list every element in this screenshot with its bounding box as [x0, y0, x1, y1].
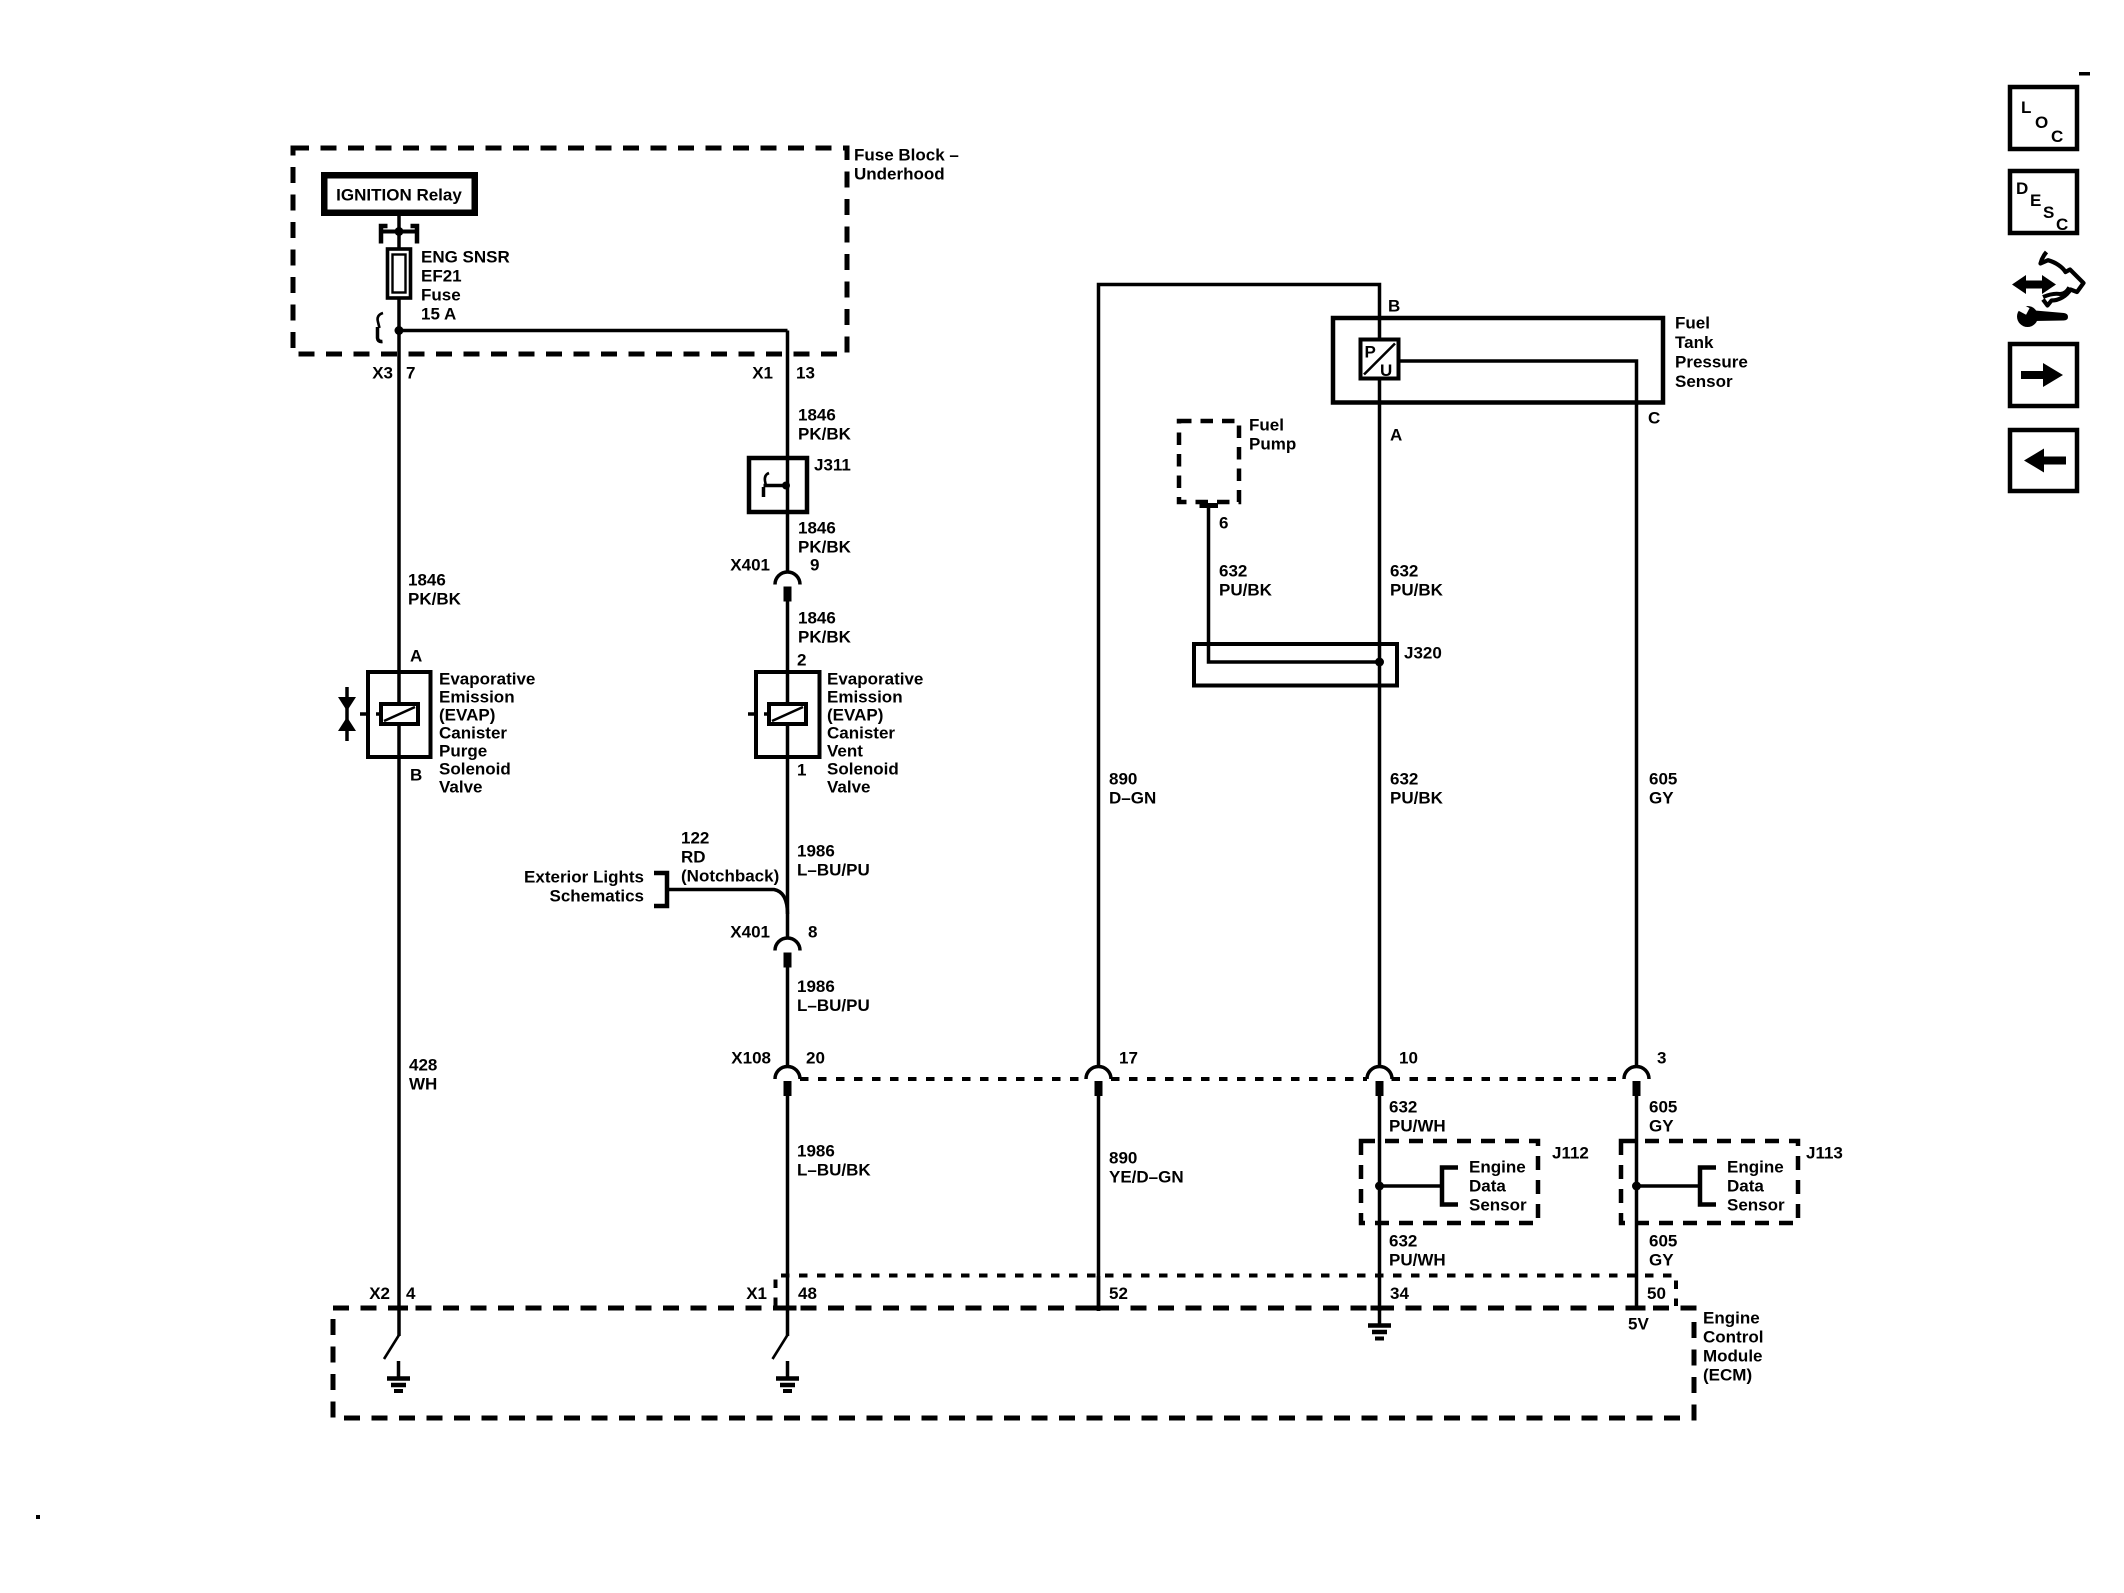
svg-text:34: 34: [1390, 1284, 1409, 1303]
svg-text:605: 605: [1649, 1098, 1677, 1117]
svg-text:Engine: Engine: [1727, 1158, 1784, 1177]
fuse ENG SNSR EF21 15 A: [388, 249, 411, 298]
pin label 50: [1647, 1284, 1666, 1303]
pin labels X1 13: [752, 364, 815, 383]
splice J320 box: [1194, 644, 1397, 686]
wire: P/U to C leg: [1399, 361, 1637, 402]
svg-text:2: 2: [797, 651, 806, 670]
svg-text:Solenoid: Solenoid: [827, 760, 899, 779]
svg-text:Sensor: Sensor: [1675, 372, 1733, 391]
svg-text:D–GN: D–GN: [1109, 789, 1156, 808]
ground at ECM pin 34: [1368, 1308, 1391, 1339]
svg-text:O: O: [2035, 113, 2048, 132]
wire: X1 column to J311: [786, 331, 790, 459]
label: 1846 PK/BK (X3 column): [408, 571, 462, 609]
svg-text:Underhood: Underhood: [854, 165, 945, 184]
svg-text:1846: 1846: [798, 519, 836, 538]
svg-text:Canister: Canister: [827, 724, 895, 743]
svg-text:605: 605: [1649, 770, 1677, 789]
pin labels X2 4 (ECM): [369, 1284, 416, 1303]
label: 890 D-GN: [1109, 770, 1156, 808]
svg-text:Module: Module: [1703, 1347, 1763, 1366]
sidebar icon: forward arrow button: [2010, 344, 2077, 406]
svg-text:WH: WH: [409, 1075, 437, 1094]
label: 632 PU/WH (lower): [1389, 1232, 1446, 1270]
svg-text:C: C: [1648, 409, 1660, 428]
svg-text:632: 632: [1390, 770, 1418, 789]
connector X401 pin 9: [775, 572, 800, 602]
svg-text:RD: RD: [681, 848, 706, 867]
svg-text:605: 605: [1649, 1232, 1677, 1251]
svg-text:S: S: [2043, 203, 2054, 222]
wire: B into P/U: [1378, 318, 1382, 340]
engine control module dashed box: [333, 1308, 1694, 1418]
pin label 1 (vent solenoid): [797, 761, 806, 780]
label: Fuse Block - Underhood: [854, 146, 959, 184]
pin label B (sensor): [1388, 297, 1400, 316]
svg-text:17: 17: [1119, 1049, 1138, 1068]
pin label 3: [1657, 1049, 1666, 1068]
pin label C: [1648, 409, 1660, 428]
fuel tank pressure sensor box: [1333, 318, 1663, 403]
svg-text:1986: 1986: [797, 842, 835, 861]
svg-text:Valve: Valve: [827, 778, 871, 797]
svg-text:Fuse Block –: Fuse Block –: [854, 146, 959, 165]
ground at ECM pin 4: [387, 1361, 410, 1391]
svg-text:1: 1: [797, 761, 806, 780]
P/U pressure transducer symbol: [1361, 340, 1399, 381]
wire: fuel pump to splice J320: [1209, 506, 1380, 662]
svg-text:48: 48: [798, 1284, 817, 1303]
svg-text:Evaporative: Evaporative: [827, 670, 923, 689]
label: 1986 L-BU/PU (above X401-8): [797, 842, 870, 880]
svg-text:J112: J112: [1552, 1144, 1589, 1163]
label: 1846 PK/BK (above X401-9): [798, 519, 852, 557]
svg-text:PU/WH: PU/WH: [1389, 1117, 1446, 1136]
svg-text:5V: 5V: [1628, 1315, 1649, 1334]
svg-text:B: B: [1388, 297, 1400, 316]
svg-text:Exterior Lights: Exterior Lights: [524, 868, 644, 887]
label: Fuel Tank Pressure Sensor: [1675, 314, 1748, 392]
svg-text:X401: X401: [730, 556, 770, 575]
svg-text:Tank: Tank: [1675, 333, 1714, 352]
svg-text:PK/BK: PK/BK: [408, 590, 462, 609]
svg-text:1846: 1846: [408, 571, 446, 590]
svg-text:10: 10: [1399, 1049, 1418, 1068]
pin labels X1 48 (ECM): [746, 1284, 817, 1303]
label: 605 GY (upper): [1649, 770, 1677, 808]
label: Fuel Pump: [1249, 416, 1296, 454]
pin label 6 (fuel pump): [1219, 514, 1228, 533]
connector X108 pin 17: [1086, 1067, 1111, 1097]
label: 632 PU/WH (upper): [1389, 1098, 1446, 1136]
label: Engine Data Sensor (J112): [1469, 1158, 1527, 1215]
svg-text:Emission: Emission: [439, 688, 515, 707]
svg-text:PK/BK: PK/BK: [798, 425, 852, 444]
pin label 10: [1399, 1049, 1418, 1068]
label: 122 RD (Notchback): [681, 829, 779, 886]
svg-text:EF21: EF21: [421, 267, 462, 286]
svg-text:1986: 1986: [797, 1142, 835, 1161]
splice J112 engine data sensor: [1361, 1141, 1538, 1223]
X108 connector dotted line: [800, 1077, 1624, 1081]
svg-text:50: 50: [1647, 1284, 1666, 1303]
svg-text:(ECM): (ECM): [1703, 1366, 1752, 1385]
label: 605 GY (lower): [1649, 1232, 1677, 1270]
svg-text:B: B: [410, 766, 422, 785]
svg-text:1846: 1846: [798, 609, 836, 628]
label: J320: [1404, 644, 1442, 663]
svg-text:Purge: Purge: [439, 742, 487, 761]
label: 605 GY (middle): [1649, 1098, 1677, 1136]
connector X108 pin 10: [1367, 1067, 1392, 1097]
label: J311: [814, 456, 851, 475]
label: Evaporative Emission (EVAP) Canister Vent Solenoid Valve: [827, 670, 923, 797]
ignition relay label box: [321, 172, 478, 216]
svg-text:13: 13: [796, 364, 815, 383]
wire: fuse to junction: [397, 298, 401, 331]
wire: vent solenoid to X401-8: [786, 757, 790, 939]
fuse block underhood dashed enclosure: [293, 148, 847, 354]
svg-text:632: 632: [1390, 562, 1418, 581]
svg-text:Canister: Canister: [439, 724, 507, 743]
svg-text:A: A: [1390, 426, 1402, 445]
label: Engine Control Module (ECM): [1703, 1309, 1763, 1385]
label: 632 PU/BK (A leg upper): [1390, 562, 1444, 600]
pin label 52: [1109, 1284, 1128, 1303]
svg-text:(Notchback): (Notchback): [681, 867, 779, 886]
label: 1986 L-BU/BK: [797, 1142, 871, 1180]
svg-text:632: 632: [1389, 1232, 1417, 1251]
label: 632 PU/BK (fuel pump leg): [1219, 562, 1273, 600]
label: 1846 PK/BK (X1 top): [798, 406, 852, 444]
svg-text:C: C: [2051, 127, 2063, 146]
connector J311: [749, 458, 807, 512]
svg-text:E: E: [2030, 191, 2041, 210]
svg-text:Pump: Pump: [1249, 435, 1296, 454]
svg-text:IGNITION Relay: IGNITION Relay: [336, 186, 462, 205]
svg-text:1986: 1986: [797, 977, 835, 996]
wire: exterior lights to X401-8: [667, 890, 788, 915]
fuel pump dashed box: [1179, 421, 1239, 502]
svg-text:J113: J113: [1806, 1144, 1843, 1163]
svg-text:PK/BK: PK/BK: [798, 628, 852, 647]
svg-text:Control: Control: [1703, 1328, 1763, 1347]
label: Evaporative Emission (EVAP) Canister Purge Solenoid Valve: [439, 670, 535, 797]
svg-text:P: P: [1365, 343, 1376, 362]
pin label 34: [1390, 1284, 1409, 1303]
ground at ECM pin 48: [776, 1361, 799, 1391]
svg-text:Pressure: Pressure: [1675, 353, 1748, 372]
pin labels X3 7: [372, 364, 415, 383]
svg-text:1846: 1846: [798, 406, 836, 425]
wire: A leg inside sensor box: [1378, 379, 1382, 403]
svg-text:3: 3: [1657, 1049, 1666, 1068]
junction dot: [395, 326, 404, 335]
connector X401 pin 8: [775, 938, 800, 968]
label: 1846 PK/BK (above vent solenoid): [798, 609, 852, 647]
pin label B (purge solenoid): [410, 766, 422, 785]
svg-text:U: U: [1380, 361, 1392, 380]
svg-text:890: 890: [1109, 770, 1137, 789]
svg-text:8: 8: [808, 923, 817, 942]
label: ENG SNSR EF21 Fuse 15 A: [421, 248, 510, 324]
svg-text:4: 4: [406, 1284, 416, 1303]
wire: 890 D-GN column (ECM 52 up to sensor B): [1099, 285, 1380, 1312]
svg-text:6: 6: [1219, 514, 1228, 533]
svg-text:J320: J320: [1404, 644, 1442, 663]
svg-text:20: 20: [806, 1049, 825, 1068]
label: 5V: [1628, 1315, 1649, 1334]
svg-text:(EVAP): (EVAP): [439, 706, 495, 725]
EVAP canister vent solenoid valve: [748, 672, 820, 757]
pin labels X108 20: [731, 1049, 825, 1068]
wire: X401-9 to vent solenoid: [786, 602, 790, 673]
svg-text:Emission: Emission: [827, 688, 903, 707]
svg-text:Data: Data: [1469, 1177, 1506, 1196]
wire: X401-8 to X108-20: [786, 968, 790, 1069]
wire: X3 column 428 WH down to ECM: [397, 331, 401, 1337]
sidebar icon: DESC button: [2010, 171, 2077, 234]
svg-text:YE/D–GN: YE/D–GN: [1109, 1168, 1184, 1187]
svg-text:Fuel: Fuel: [1675, 314, 1710, 333]
relay contact: [381, 226, 417, 244]
svg-text:Fuel: Fuel: [1249, 416, 1284, 435]
svg-text:Sensor: Sensor: [1727, 1196, 1785, 1215]
valve symbol (purge solenoid): [338, 687, 356, 741]
svg-text:Evaporative: Evaporative: [439, 670, 535, 689]
svg-text:Engine: Engine: [1703, 1309, 1760, 1328]
svg-text:122: 122: [681, 829, 709, 848]
svg-text:428: 428: [409, 1056, 437, 1075]
pin labels X401 9: [730, 556, 819, 575]
wire: ECM pin 52 stub: [1097, 1276, 1101, 1311]
svg-text:J311: J311: [814, 456, 851, 475]
pin label 2 (vent solenoid): [797, 651, 806, 670]
svg-text:GY: GY: [1649, 1117, 1674, 1136]
svg-text:52: 52: [1109, 1284, 1128, 1303]
svg-text:A: A: [410, 647, 422, 666]
label: Engine Data Sensor (J113): [1727, 1158, 1785, 1215]
svg-text:PU/WH: PU/WH: [1389, 1251, 1446, 1270]
svg-text:X401: X401: [730, 923, 770, 942]
wire: junction to X1 column (horizontal in fuse block): [399, 329, 788, 333]
svg-text:L: L: [2021, 98, 2031, 117]
page mark bottom left: [36, 1515, 40, 1519]
wire: relay box to contact: [397, 216, 401, 231]
sidebar icon: shortcut hand with wrench: [2011, 252, 2083, 327]
sidebar icon: back arrow button: [2010, 430, 2077, 491]
svg-text:Sensor: Sensor: [1469, 1196, 1527, 1215]
svg-text:X1: X1: [746, 1284, 767, 1303]
svg-text:890: 890: [1109, 1149, 1137, 1168]
wire: contact to fuse: [397, 231, 401, 250]
svg-text:15 A: 15 A: [421, 305, 456, 324]
svg-text:Engine: Engine: [1469, 1158, 1526, 1177]
svg-text:PU/BK: PU/BK: [1390, 581, 1444, 600]
pin label 17: [1119, 1049, 1138, 1068]
svg-text:Data: Data: [1727, 1177, 1764, 1196]
svg-text:(EVAP): (EVAP): [827, 706, 883, 725]
wire: C leg from sensor down to ECM 50: [1635, 402, 1639, 1308]
svg-text:X2: X2: [369, 1284, 390, 1303]
wire: J311 to X401-9: [786, 512, 790, 573]
svg-text:ENG SNSR: ENG SNSR: [421, 248, 510, 267]
svg-text:632: 632: [1219, 562, 1247, 581]
ECM top edge pin tick marks: [390, 1306, 1646, 1311]
connector X108 pin 3: [1624, 1067, 1649, 1097]
label: J113: [1806, 1144, 1843, 1163]
connector X108 pin 20: [775, 1067, 800, 1097]
pin labels X401 8: [730, 923, 817, 942]
pin label A: [1390, 426, 1402, 445]
label: 890 YE/D-GN: [1109, 1149, 1184, 1187]
svg-text:L–BU/BK: L–BU/BK: [797, 1161, 871, 1180]
EVAP canister purge solenoid valve: [360, 672, 431, 757]
X1 connector dotted line (ECM header): [776, 1276, 1677, 1307]
svg-text:L–BU/PU: L–BU/PU: [797, 996, 870, 1015]
svg-text:X108: X108: [731, 1049, 771, 1068]
svg-text:PU/BK: PU/BK: [1390, 789, 1444, 808]
splice J113 engine data sensor: [1621, 1141, 1798, 1223]
wire: A leg from sensor down to ECM 34: [1378, 402, 1382, 1311]
svg-text:PU/BK: PU/BK: [1219, 581, 1273, 600]
svg-text:X1: X1: [752, 364, 773, 383]
label: 428 WH: [409, 1056, 437, 1094]
wire: X108-20 to ECM pin 48: [786, 1096, 790, 1336]
svg-text:GY: GY: [1649, 789, 1674, 808]
svg-text:9: 9: [810, 556, 819, 575]
svg-text:7: 7: [406, 364, 415, 383]
sidebar icon: LOC button: [2010, 87, 2077, 149]
svg-text:Valve: Valve: [439, 778, 483, 797]
label: 632 PU/BK (A leg lower): [1390, 770, 1444, 808]
page mark top right: [2079, 72, 2090, 76]
svg-text:Vent: Vent: [827, 742, 863, 761]
label: 1986 L-BU/PU (above X108-20): [797, 977, 870, 1015]
bracket for exterior lights reference: [654, 873, 667, 906]
svg-text:X3: X3: [372, 364, 393, 383]
svg-text:PK/BK: PK/BK: [798, 538, 852, 557]
svg-text:C: C: [2056, 215, 2068, 234]
svg-text:Solenoid: Solenoid: [439, 760, 511, 779]
svg-text:Fuse: Fuse: [421, 286, 461, 305]
label: J112: [1552, 1144, 1589, 1163]
svg-text:L–BU/PU: L–BU/PU: [797, 861, 870, 880]
pin label A (purge solenoid): [410, 647, 422, 666]
svg-text:632: 632: [1389, 1098, 1417, 1117]
fuel pump terminal bar: [1200, 503, 1219, 508]
switch blade at ECM pin 4: [384, 1335, 399, 1359]
svg-text:Schematics: Schematics: [550, 887, 645, 906]
label: Exterior Lights Schematics: [524, 868, 644, 906]
svg-text:D: D: [2016, 179, 2028, 198]
splice hook symbol at junction: [378, 313, 384, 342]
switch blade at ECM pin 48: [773, 1335, 788, 1359]
svg-text:GY: GY: [1649, 1251, 1674, 1270]
